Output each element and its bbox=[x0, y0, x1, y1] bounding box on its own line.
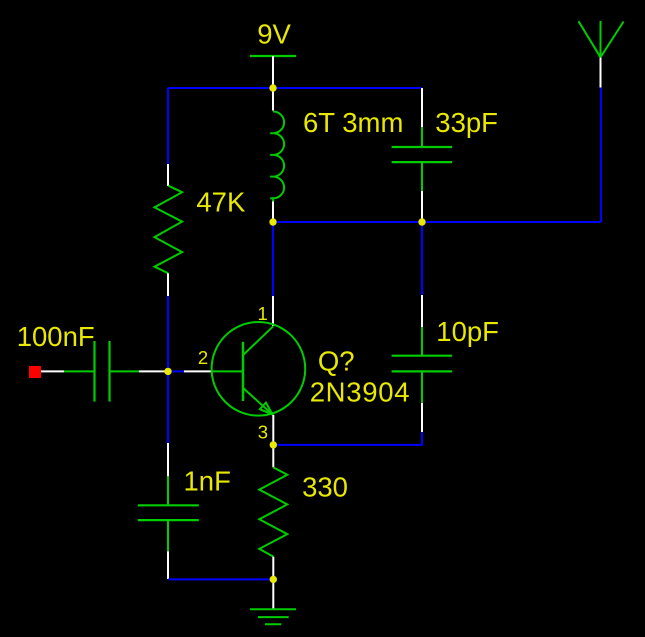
wire bbox=[272, 202, 274, 223]
wire bbox=[184, 370, 212, 372]
wire bbox=[64, 370, 95, 372]
node junction dot bbox=[270, 576, 277, 583]
wire bbox=[167, 551, 169, 579]
svg-text:Q?: Q? bbox=[318, 345, 355, 376]
svg-text:1nF: 1nF bbox=[184, 466, 231, 497]
svg-text:9V: 9V bbox=[257, 19, 291, 50]
wire collector column bbox=[272, 222, 274, 296]
wire 1nF column bbox=[167, 443, 169, 476]
wire bbox=[600, 57, 602, 87]
wire bbox=[272, 445, 274, 467]
wire bbox=[110, 370, 140, 372]
node junction dot bbox=[164, 368, 171, 375]
antenna bbox=[579, 21, 624, 57]
node junction dot bbox=[269, 218, 276, 225]
wire bbox=[421, 295, 423, 327]
wire bbox=[273, 432, 422, 445]
node junction dot bbox=[270, 441, 277, 448]
svg-text:6T 3mm: 6T 3mm bbox=[303, 107, 403, 138]
node junction dot bbox=[418, 218, 425, 225]
wire bbox=[421, 88, 423, 127]
wire left column lower bbox=[167, 296, 169, 443]
wire bbox=[272, 557, 274, 580]
capacitor 100nF bbox=[95, 341, 110, 402]
wire base row bbox=[139, 370, 165, 372]
resistor 47K bbox=[155, 186, 183, 274]
svg-text:3: 3 bbox=[258, 421, 268, 442]
wire bbox=[272, 296, 274, 326]
ground bbox=[250, 609, 296, 624]
svg-text:330: 330 bbox=[302, 472, 348, 503]
wire ground lead bbox=[272, 579, 274, 608]
node junction dot bbox=[269, 84, 276, 91]
wire 10pF top column bbox=[421, 222, 423, 295]
inductor L1 6T 3mm bbox=[270, 112, 284, 202]
transistor Q? 2N3904 bbox=[212, 322, 306, 416]
capacitor 10pF bbox=[392, 356, 453, 372]
svg-text:100nF: 100nF bbox=[17, 321, 95, 352]
svg-text:1: 1 bbox=[258, 303, 268, 324]
wire bottom rail bbox=[169, 578, 274, 580]
wire bbox=[167, 476, 169, 505]
wire bbox=[272, 56, 274, 88]
wire bbox=[421, 191, 423, 222]
wire bbox=[421, 403, 423, 432]
wire mid rail bbox=[273, 221, 601, 223]
wire top rail bbox=[168, 87, 422, 89]
wire bbox=[168, 370, 184, 372]
input node red square bbox=[29, 366, 41, 378]
resistor 330 bbox=[259, 467, 287, 556]
wire bbox=[167, 273, 169, 296]
wire bbox=[421, 127, 423, 147]
capacitor 1nF bbox=[138, 505, 199, 520]
wire bbox=[272, 88, 274, 111]
svg-text:33pF: 33pF bbox=[435, 107, 498, 138]
svg-text:2: 2 bbox=[198, 347, 208, 368]
wire emitter pin bbox=[272, 415, 274, 445]
wire bbox=[421, 327, 423, 356]
svg-text:47K: 47K bbox=[196, 187, 246, 218]
power supply 9V symbol bbox=[250, 55, 296, 57]
wire bbox=[421, 162, 423, 191]
wire antenna column bbox=[600, 88, 602, 223]
wire bbox=[167, 164, 169, 186]
capacitor 33pF bbox=[392, 147, 453, 162]
svg-text:2N3904: 2N3904 bbox=[310, 376, 411, 407]
wire bbox=[41, 370, 64, 372]
wire bbox=[421, 371, 423, 403]
svg-text:10pF: 10pF bbox=[436, 316, 499, 347]
wire bbox=[167, 520, 169, 551]
wire left column upper bbox=[167, 88, 169, 164]
